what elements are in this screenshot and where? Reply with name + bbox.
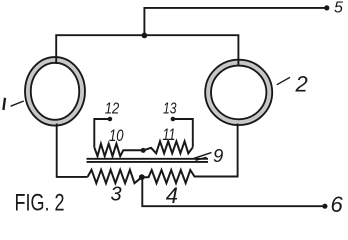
resistor 10 <box>94 144 143 157</box>
tube 2 gray band <box>208 63 269 123</box>
resistor 3 <box>88 170 142 183</box>
svg-text:9: 9 <box>213 145 223 166</box>
leader line to tube 2 <box>277 77 290 85</box>
svg-text:FIG. 2: FIG. 2 <box>15 189 65 214</box>
node 12 dot <box>108 117 113 122</box>
tube 1 (left circle, dark ring) <box>28 60 82 123</box>
tube 2 (right circle, dark ring) <box>208 63 269 123</box>
wire bracket from tap 12 <box>94 119 110 147</box>
svg-text:5: 5 <box>334 0 343 17</box>
node center tap dot <box>139 174 145 180</box>
wire top bus between tubes <box>56 35 238 66</box>
leader line to tube 1 <box>11 101 24 106</box>
svg-text:3: 3 <box>111 184 122 206</box>
wire bracket from tap 13 <box>173 119 193 147</box>
svg-text:6: 6 <box>331 192 344 214</box>
wire tube 2 bottom stub <box>237 124 239 177</box>
resistor 11 <box>143 141 193 153</box>
svg-text:2: 2 <box>295 72 308 97</box>
node terminal 5 dot <box>324 5 329 10</box>
label 1 (handwritten stroke) <box>3 98 5 110</box>
svg-text:12: 12 <box>105 101 120 118</box>
svg-text:10: 10 <box>109 127 124 145</box>
resistor 4 <box>142 170 239 183</box>
junction dot on top bus <box>142 33 148 39</box>
leader line to 9 <box>194 153 212 161</box>
node terminal 6 dot <box>322 204 327 209</box>
slider plate 9 (double line) <box>87 159 209 162</box>
wire top lead to terminal 5 <box>144 8 326 36</box>
svg-text:4: 4 <box>166 183 178 208</box>
svg-text:11: 11 <box>163 126 176 144</box>
node 13 dot <box>171 117 176 122</box>
wire tube 1 bottom stub <box>57 124 88 177</box>
node dot between resistors 10 and 11 <box>141 148 146 153</box>
svg-text:13: 13 <box>163 101 177 118</box>
tube 1 gray band <box>28 60 82 123</box>
wire center tap to terminal 6 <box>142 177 324 206</box>
